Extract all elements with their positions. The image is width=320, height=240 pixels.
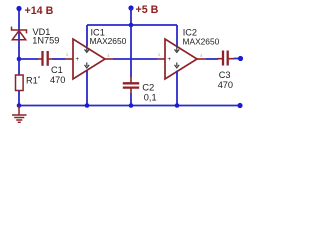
svg-text:0,1: 0,1	[144, 92, 157, 102]
node rail end terminal dot	[237, 103, 242, 108]
wire: ground bottom rail	[19, 105, 240, 107]
capacitor C2	[123, 83, 139, 87]
capacitor C3	[223, 51, 228, 66]
svg-text:4: 4	[107, 53, 110, 58]
node +14V terminal dot	[16, 6, 21, 11]
svg-text:C1: C1	[51, 65, 63, 75]
capacitor C1	[43, 51, 48, 66]
wire: IC1 GND pin to bottom rail	[86, 71, 88, 106]
wire: C2 to bottom rail	[130, 88, 132, 94]
svg-text:1: 1	[66, 52, 69, 57]
wire: C3 to output terminal	[229, 58, 234, 60]
wire: IC2 output to C3	[206, 58, 218, 60]
node rail junction dot at IC1 GND	[85, 103, 90, 108]
node rail junction dot at R1	[17, 103, 22, 108]
pin arrow IC1 GND (power pin out of bottom edge)	[85, 63, 90, 68]
wire: IC1 output to IC2 input	[113, 58, 157, 60]
wire: IC2 GND pin to bottom rail	[176, 71, 178, 106]
svg-text:C3: C3	[219, 70, 231, 80]
pin arrow IC2 Vcc (power pin into top edge)	[175, 46, 180, 52]
svg-text:1N759: 1N759	[32, 35, 59, 45]
wire: R1 to bottom rail	[18, 91, 20, 106]
svg-text:4: 4	[200, 53, 203, 58]
svg-text:1: 1	[158, 52, 161, 57]
svg-text:470: 470	[50, 75, 65, 85]
wire: +5 drop	[130, 8, 132, 25]
pin 1 stub IC2 input	[157, 58, 165, 60]
op-amp IC1 MAX2650 triangle	[73, 39, 105, 79]
resistor R1	[16, 75, 24, 91]
pin 4 stub IC1 output	[105, 58, 113, 60]
wire: +5 distribution rail	[87, 24, 177, 26]
pin arrow IC2 GND (power pin out of bottom edge)	[175, 63, 180, 68]
svg-text:MAX2650: MAX2650	[183, 36, 220, 46]
wire: +5 rail down to IC2 Vcc pin	[176, 25, 178, 47]
svg-text:470: 470	[218, 80, 233, 90]
node rail junction dot at IC2 GND	[175, 103, 180, 108]
wire: tap to C1	[19, 58, 38, 60]
svg-text:+: +	[75, 56, 79, 63]
wire: +5 rail down to IC1 Vcc pin	[86, 25, 88, 47]
wire: +14V feed down left column	[18, 9, 20, 60]
svg-text:+: +	[167, 56, 171, 63]
node +5V terminal dot	[128, 5, 133, 10]
pin 4 stub IC2 output	[197, 58, 206, 60]
node +5 junction dot	[129, 23, 134, 28]
node output terminal dot	[238, 56, 243, 61]
ground symbol	[12, 106, 27, 123]
pin arrow IC1 Vcc (power pin into top edge)	[85, 46, 90, 52]
svg-text:+5 В: +5 В	[136, 4, 159, 16]
node A junction dot (divider tap)	[17, 57, 22, 62]
svg-text:+14 В: +14 В	[25, 5, 54, 17]
zener diode VD1	[12, 27, 27, 40]
wire: C1 to IC1 input	[49, 58, 53, 60]
wire: junction down to R1	[18, 59, 20, 75]
wire: +5 junction down to C2 (crosses signal wire, no junction)	[130, 25, 132, 77]
pin 1 stub IC1 input	[65, 58, 73, 60]
svg-text:MAX2650: MAX2650	[90, 36, 127, 46]
op-amp IC2 MAX2650 triangle	[165, 39, 197, 79]
node rail junction dot at C2	[129, 103, 134, 108]
